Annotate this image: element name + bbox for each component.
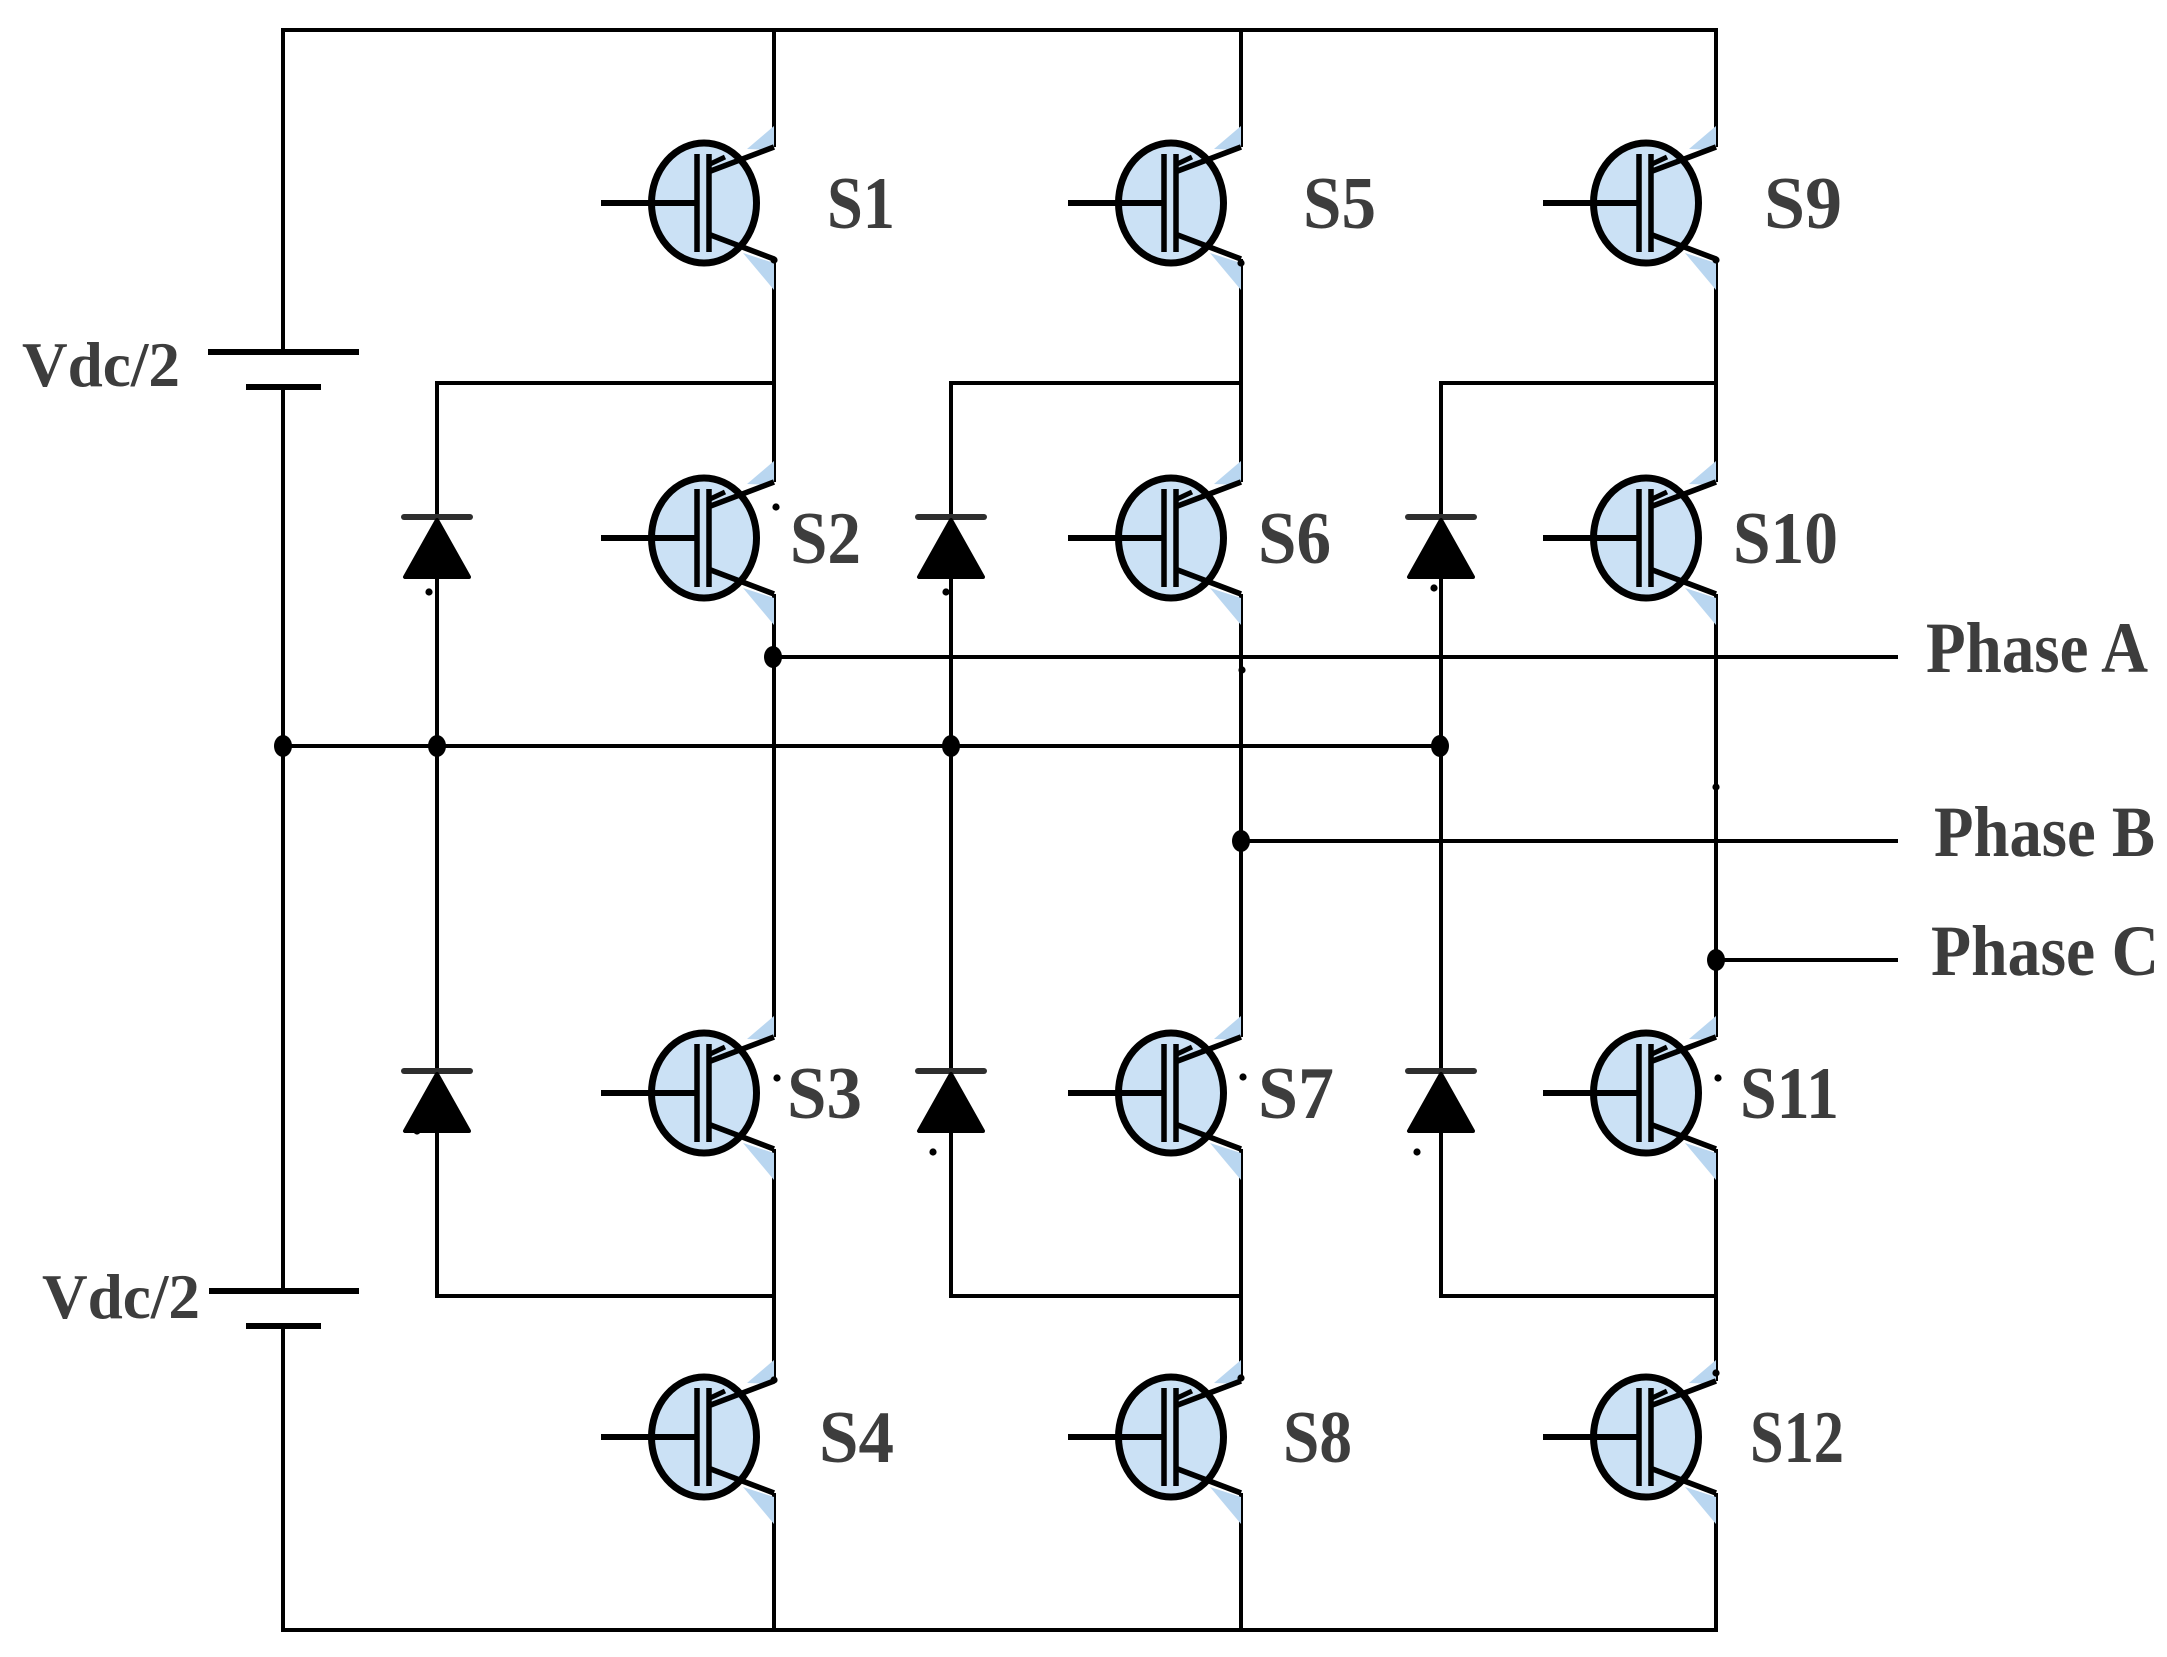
junction dot S1 emitter junction	[770, 256, 777, 263]
svg-text:S6: S6	[1258, 498, 1331, 580]
wire leg C from top bus to S9 collector	[1714, 30, 1718, 147]
node Phase A tap	[764, 646, 782, 668]
wire clamp connector B upper	[949, 381, 1241, 385]
junction dot S9 emitter junction	[1712, 256, 1719, 263]
wire Phase B output line	[1241, 839, 1898, 843]
bottom DC bus	[281, 1628, 1718, 1632]
wire leg C S11 emitter to S12 collector	[1714, 1149, 1718, 1381]
transistor S6 (IGBT)	[1068, 461, 1241, 625]
svg-text:S9: S9	[1764, 163, 1842, 245]
wire leg B from top bus to S5 collector	[1239, 30, 1243, 147]
transistor S2 (IGBT)	[601, 461, 774, 625]
wire neutral midpoint bus	[283, 744, 1440, 748]
svg-text:Vdc/2: Vdc/2	[42, 1261, 200, 1332]
wire leg A S4 emitter to bottom bus	[772, 1493, 776, 1630]
wire Phase A output line	[774, 655, 1898, 659]
capacitor C2 (Vdc/2 lower source)	[209, 1291, 359, 1326]
wire left rail lower (C2 to bottom bus)	[281, 1326, 285, 1630]
wire leg B S8 emitter to bottom bus	[1239, 1493, 1243, 1630]
svg-text:S8: S8	[1283, 1397, 1352, 1479]
wire leg A S3 emitter to S4 collector	[772, 1149, 776, 1381]
transistor S4 (IGBT)	[601, 1360, 774, 1524]
wire clamp connector A lower	[435, 1294, 774, 1298]
wire leg B S6 emitter to S7 collector	[1239, 594, 1243, 1037]
clamp diode DB2 (lower clamp)	[918, 1071, 984, 1131]
wire clamp connector A upper	[435, 381, 774, 385]
transistor S10 (IGBT)	[1543, 461, 1716, 625]
junction dot near DB1	[942, 588, 949, 595]
wire clamp column A bottom segment	[435, 1131, 439, 1296]
junction dot on leg C	[1712, 783, 1719, 790]
wire leg A S1 emitter to S2 collector	[772, 259, 776, 482]
svg-text:Phase C: Phase C	[1931, 911, 2159, 991]
junction dot near DA2	[413, 1127, 420, 1134]
wire leg C S10 emitter to S11 collector	[1714, 594, 1718, 1037]
junction dot S4 collector junction	[770, 1376, 777, 1383]
transistor S8 (IGBT)	[1068, 1360, 1241, 1524]
wire left rail middle (C1 to capacitor C2)	[281, 387, 285, 1291]
node Phase C tap	[1707, 949, 1725, 971]
svg-text:S4: S4	[819, 1397, 894, 1479]
clamp diode DB1 (upper clamp)	[918, 517, 984, 577]
wire clamp column B top segment	[949, 383, 953, 516]
wire left rail upper (top bus to capacitor C1)	[281, 30, 285, 352]
junction dot on leg B below Phase A	[1238, 666, 1245, 673]
clamp diode DA2 (lower clamp)	[404, 1071, 470, 1131]
transistor S3 (IGBT)	[601, 1016, 774, 1180]
svg-text:Vdc/2: Vdc/2	[22, 329, 180, 400]
node neutral at clamp column A	[428, 735, 446, 757]
junction dot near S2	[772, 503, 779, 510]
svg-text:S1: S1	[827, 163, 895, 245]
node Phase B tap	[1232, 830, 1250, 852]
junction dot near DC1	[1430, 584, 1437, 591]
junction dot S8 collector junction	[1237, 1374, 1244, 1381]
wire clamp column A top segment	[435, 383, 439, 516]
svg-text:S7: S7	[1258, 1053, 1334, 1135]
wire clamp column B bottom segment	[949, 1131, 953, 1296]
junction dot near S11	[1714, 1074, 1721, 1081]
node neutral at left rail	[274, 735, 292, 757]
wire leg B S7 emitter to S8 collector	[1239, 1149, 1243, 1381]
wire clamp column C top segment	[1439, 383, 1443, 516]
wire leg B S5 emitter to S6 collector	[1239, 259, 1243, 482]
wire clamp column C bottom segment	[1439, 1131, 1443, 1296]
top DC bus	[281, 28, 1718, 32]
junction dot S12 collector junction	[1712, 1369, 1719, 1376]
clamp diode DA1 (upper clamp)	[404, 517, 470, 577]
junction dot S5 emitter junction	[1237, 259, 1244, 266]
transistor S11 (IGBT)	[1543, 1016, 1716, 1180]
svg-text:S2: S2	[790, 498, 861, 580]
capacitor C1 (Vdc/2 upper source)	[208, 352, 359, 387]
wire leg A from top bus to S1 collector	[772, 30, 776, 147]
svg-text:S12: S12	[1750, 1397, 1844, 1479]
svg-text:S5: S5	[1303, 163, 1376, 245]
transistor S5 (IGBT)	[1068, 126, 1241, 290]
wire Phase C output line	[1716, 958, 1898, 962]
transistor S1 (IGBT)	[601, 126, 774, 290]
junction dot near S7	[1239, 1073, 1246, 1080]
transistor S7 (IGBT)	[1068, 1016, 1241, 1180]
node neutral at clamp column C	[1431, 735, 1449, 757]
junction dot near DA1	[425, 588, 432, 595]
transistor S12 (IGBT)	[1543, 1360, 1716, 1524]
wire clamp connector B lower	[949, 1294, 1241, 1298]
svg-text:S10: S10	[1733, 498, 1838, 580]
svg-text:Phase B: Phase B	[1934, 792, 2155, 872]
wire clamp connector C upper	[1439, 381, 1716, 385]
svg-text:Phase A: Phase A	[1926, 608, 2148, 688]
wire clamp connector C lower	[1439, 1294, 1716, 1298]
wire leg C S9 emitter to S10 collector	[1714, 259, 1718, 482]
clamp diode DC1 (upper clamp)	[1408, 517, 1474, 577]
junction dot near DB2	[929, 1148, 936, 1155]
wire clamp column A middle segment	[435, 577, 439, 1070]
transistor S9 (IGBT)	[1543, 126, 1716, 290]
wire clamp column C middle segment	[1439, 577, 1443, 1070]
clamp diode DC2 (lower clamp)	[1408, 1071, 1474, 1131]
junction dot near DC2	[1413, 1148, 1420, 1155]
wire leg A S2 emitter to S3 collector	[772, 594, 776, 1037]
svg-text:S3: S3	[787, 1053, 862, 1135]
svg-text:S11: S11	[1740, 1053, 1839, 1135]
node neutral at clamp column B	[942, 735, 960, 757]
wire clamp column B middle segment	[949, 577, 953, 1070]
junction dot near S3	[773, 1074, 780, 1081]
wire leg C S12 emitter to bottom bus	[1714, 1493, 1718, 1630]
